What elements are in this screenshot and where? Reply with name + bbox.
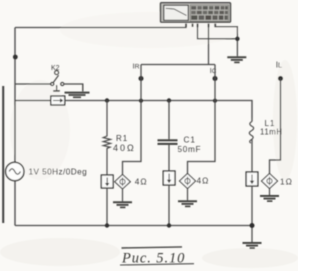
- wire: main top bus to L branch corner: [65, 101, 252, 119]
- svg-text:R1: R1: [116, 134, 128, 143]
- resistor R1: [103, 101, 110, 176]
- svg-text:1Ω: 1Ω: [280, 176, 293, 186]
- ground (R sense branch): [113, 201, 132, 208]
- wire: scope terminal 4 to ground drop: [215, 27, 237, 57]
- wire: C branch below plates: [168, 145, 170, 171]
- wire: IC sense drop to CCVS U2: [188, 65, 216, 174]
- ground (C sense branch): [178, 200, 197, 207]
- wire: C branch top: [168, 101, 170, 140]
- svg-text:1V 50Hz/0Deg: 1V 50Hz/0Deg: [29, 168, 88, 177]
- AC source V1: [6, 162, 24, 180]
- wire: top bus from left rail to scope terminal 1: [15, 24, 186, 28]
- svg-text:11mH: 11mH: [260, 128, 283, 137]
- caption overline: [122, 246, 183, 248]
- ammeter A4 (L branch, arrow down): [246, 172, 258, 186]
- wire: scope terminal 3 down to sense bus: [208, 27, 210, 65]
- svg-text:50mF: 50mF: [178, 145, 202, 154]
- inductor L1: [249, 118, 253, 143]
- svg-text:4Ω: 4Ω: [135, 176, 148, 186]
- node IC: [213, 76, 218, 81]
- CCVS U3 (diamond): [262, 174, 278, 189]
- node R-branch top junction: [105, 98, 109, 102]
- wire: ammeter A1 feed: [15, 100, 51, 102]
- svg-text:K2: K2: [51, 65, 60, 72]
- ammeter A3 (C branch, arrow down): [163, 171, 175, 185]
- node sense-R bus crossing: [139, 99, 143, 103]
- node IL: [278, 76, 283, 81]
- CCVS U2 (diamond): [180, 174, 196, 189]
- oscilloscope XSC1 body: [161, 3, 231, 22]
- ground (oscilloscope): [227, 56, 246, 63]
- wire: source to bottom bus corner: [14, 181, 16, 226]
- wire: switch to ground: [64, 84, 83, 91]
- node C-branch top junction: [167, 98, 171, 102]
- wire: U1 to ground: [122, 189, 124, 201]
- oscilloscope XSC1 screen: [164, 5, 189, 20]
- CCVS U1 (diamond): [115, 175, 131, 189]
- wire: switch feed: [15, 83, 52, 85]
- svg-text:IL: IL: [276, 61, 282, 70]
- oscilloscope XSC1 screen trace: [166, 8, 187, 15]
- wire: left rail down to source: [14, 28, 16, 163]
- wire: IL sense drop to CCVS U3: [270, 79, 281, 174]
- node sense-C bus crossing: [213, 99, 217, 103]
- ground (L sense branch): [260, 195, 279, 202]
- wire: L branch to ammeter: [251, 141, 253, 172]
- svg-text:IR: IR: [133, 62, 140, 71]
- oscilloscope XSC1 control panel: [190, 5, 228, 22]
- wire: scope terminal 2 to ground rail: [198, 27, 238, 39]
- wire: sense bus horizontal IR-IC: [141, 64, 215, 66]
- wire: bottom bus: [15, 225, 252, 227]
- wire: A2 to bottom bus: [106, 188, 108, 226]
- caption underline: [120, 263, 194, 265]
- node C-branch bottom junction: [167, 223, 171, 227]
- node IR: [139, 76, 144, 81]
- node R-branch bottom junction: [105, 223, 109, 227]
- node bottom-right junction: [250, 223, 255, 228]
- wire: IR sense drop to CCVS U1: [123, 65, 142, 175]
- wire: A3 to bottom bus: [168, 185, 170, 226]
- oscilloscope XSC1 terminal pins: [185, 24, 216, 28]
- ground (switch branch): [65, 92, 90, 99]
- svg-text:4Ω: 4Ω: [197, 175, 210, 185]
- ammeter A1 (series, arrow right): [51, 96, 65, 105]
- wire: U3 to ground: [269, 189, 271, 196]
- ground (bottom rail): [243, 242, 262, 249]
- svg-text:40Ω: 40Ω: [113, 143, 136, 153]
- wire: A4 through bottom bus to ground: [251, 186, 253, 242]
- node junction on left rail: [13, 55, 18, 60]
- svg-text:C1: C1: [184, 136, 196, 145]
- svg-text:IC: IC: [210, 68, 217, 75]
- ammeter A2 (R branch, arrow down): [101, 175, 113, 188]
- node junction scope ground wires: [235, 37, 239, 41]
- wire: U2 to ground: [187, 189, 189, 201]
- switch K2: [51, 71, 64, 92]
- capacitor C1: [158, 139, 178, 145]
- page edge scan artifact: [2, 86, 4, 223]
